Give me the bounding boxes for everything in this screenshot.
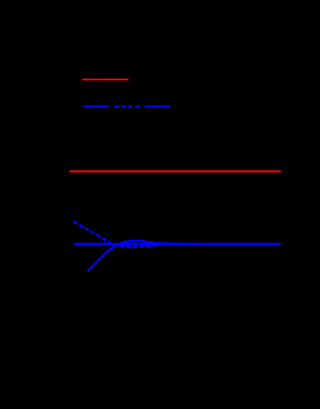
blue asymptote line xyxy=(74,243,281,245)
blue solid rising curve xyxy=(88,241,185,272)
blue dashed descending curve xyxy=(73,221,200,247)
red reference line xyxy=(70,170,281,172)
legend key blue dashed line xyxy=(83,106,170,108)
legend key red solid line xyxy=(82,79,128,81)
